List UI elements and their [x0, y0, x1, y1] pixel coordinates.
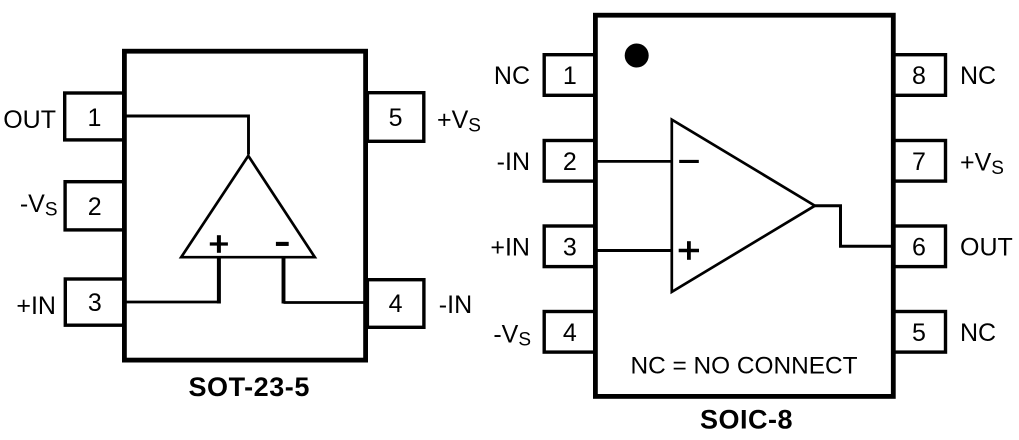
svg-text:6: 6	[912, 233, 926, 261]
svg-text:5: 5	[912, 319, 926, 347]
svg-text:2: 2	[88, 193, 102, 221]
svg-text:1: 1	[563, 62, 577, 90]
svg-text:OUT: OUT	[3, 106, 56, 134]
svg-text:SOT-23-5: SOT-23-5	[188, 372, 309, 402]
svg-text:8: 8	[912, 62, 926, 90]
svg-text:+IN: +IN	[490, 234, 530, 262]
svg-text:NC: NC	[960, 62, 996, 90]
svg-text:1: 1	[88, 104, 102, 132]
svg-text:-IN: -IN	[497, 148, 530, 176]
svg-text:5: 5	[389, 104, 403, 132]
svg-text:NC: NC	[960, 319, 996, 347]
svg-text:3: 3	[563, 233, 577, 261]
svg-text:4: 4	[389, 290, 403, 318]
svg-text:7: 7	[912, 148, 926, 176]
svg-text:3: 3	[88, 289, 102, 317]
svg-text:-IN: -IN	[439, 291, 472, 319]
svg-text:OUT: OUT	[960, 234, 1013, 262]
svg-text:2: 2	[563, 148, 577, 176]
svg-text:NC = NO CONNECT: NC = NO CONNECT	[631, 352, 858, 379]
svg-text:NC: NC	[494, 62, 530, 90]
svg-text:SOIC-8: SOIC-8	[700, 405, 793, 435]
svg-text:4: 4	[563, 319, 577, 347]
svg-text:+IN: +IN	[16, 292, 56, 320]
